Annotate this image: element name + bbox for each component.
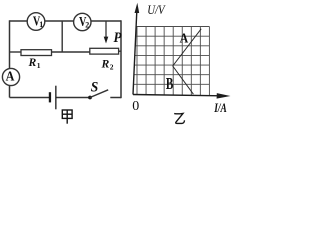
x-axis I/A	[133, 95, 221, 96]
svg-text:B: B	[166, 74, 173, 93]
wire: branch from left border to R1	[10, 51, 22, 53]
slider arrowhead	[104, 37, 109, 44]
svg-text:S: S	[91, 80, 99, 96]
graph grid horizontal lines	[133, 27, 209, 85]
svg-text:2: 2	[85, 21, 89, 30]
svg-text:1: 1	[39, 20, 43, 29]
battery: long thin plate	[55, 86, 56, 110]
svg-text:2: 2	[110, 63, 114, 72]
x-axis arrowhead	[217, 93, 231, 99]
svg-text:0: 0	[132, 99, 139, 114]
svg-text:R: R	[28, 55, 37, 69]
resistor R2 (rheostat)	[90, 48, 119, 54]
svg-text:A: A	[6, 70, 16, 85]
wire: vertical branch from top wire to middle node	[61, 21, 63, 52]
svg-text:R: R	[101, 57, 110, 71]
switch S pivot dot	[88, 96, 92, 100]
wire: left border vertical	[9, 20, 11, 97]
slider arrow P wire	[105, 21, 107, 38]
svg-text:1: 1	[37, 61, 41, 70]
label yi (Chinese: diagram 2)	[174, 113, 184, 123]
label jia (Chinese: diagram 1)	[62, 110, 72, 124]
voltmeter V2	[74, 13, 91, 30]
svg-text:A: A	[180, 31, 189, 46]
switch S lever	[90, 90, 108, 98]
y-axis arrowhead	[135, 3, 140, 13]
battery: short thick plate	[49, 92, 51, 102]
graph grid vertical lines	[137, 27, 209, 96]
wire: top wire of circuit	[10, 20, 122, 22]
svg-text:I/A: I/A	[213, 100, 227, 115]
wire: bottom wire middle segment	[57, 97, 91, 99]
line B (falling ray)	[173, 66, 194, 94]
ammeter A	[2, 68, 19, 85]
wire: right border vertical	[120, 20, 122, 98]
wire: middle-level wire R1 to R2	[52, 51, 90, 53]
wire: R2 right stub to right border	[119, 50, 121, 52]
line A (rising ray)	[173, 29, 202, 66]
svg-text:U/V: U/V	[147, 3, 166, 17]
y-axis U/V	[133, 7, 137, 95]
voltmeter V1	[27, 13, 45, 31]
wire: bottom wire left segment	[10, 97, 50, 99]
resistor R1	[21, 50, 52, 56]
svg-text:P: P	[114, 30, 122, 46]
wire: bottom wire right segment (switch contact)	[110, 97, 121, 99]
